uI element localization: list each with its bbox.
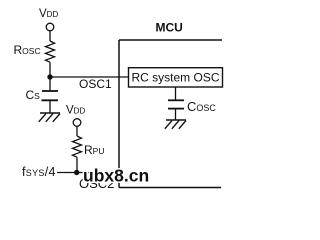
capacitor COSC (168, 100, 184, 108)
wire RPU to node OSC2 (76, 157, 78, 172)
svg-text:RPU: RPU (84, 143, 104, 157)
svg-text:ROSC: ROSC (14, 43, 41, 57)
svg-text:MCU: MCU (156, 21, 183, 35)
ground (below CS) (39, 113, 60, 122)
resistor ROSC (46, 41, 55, 62)
svg-text:CS: CS (26, 88, 41, 102)
power terminal VDD (pull-up branch) (73, 119, 81, 127)
MCU box bottom edge (119, 187, 221, 189)
wire CS to ground (49, 100, 51, 113)
wire VDD terminal to ROSC (49, 31, 51, 41)
MCU box top edge (119, 39, 222, 41)
ground (below COSC) (165, 120, 186, 129)
wire VDD terminal to RPU (76, 126, 78, 136)
wire node to MCU OSC1 pin (50, 76, 129, 78)
junction node OSC2 (74, 170, 79, 175)
svg-text:VDD: VDD (39, 8, 58, 20)
capacitor CS (42, 91, 59, 100)
wire RC OSC block to COSC (175, 87, 177, 100)
op block U1: RC system OSC box (129, 68, 223, 87)
wire ROSC to node OSC1 (49, 62, 51, 77)
resistor RPU (73, 136, 82, 157)
svg-text:fSYS/4: fSYS/4 (22, 165, 56, 179)
wire fSYS/4 to MCU OSC2 pin (57, 172, 119, 174)
wire node down to CS (49, 77, 51, 91)
svg-text:ubx8.cn: ubx8.cn (83, 166, 149, 186)
power terminal VDD (OSC1 branch) (46, 23, 54, 31)
svg-text:OSC1: OSC1 (79, 77, 112, 91)
MCU box left edge (118, 40, 120, 188)
svg-text:RC system OSC: RC system OSC (132, 71, 220, 85)
junction node OSC1 (47, 74, 52, 79)
svg-text:VDD: VDD (66, 105, 85, 117)
wire COSC to ground (175, 109, 177, 120)
